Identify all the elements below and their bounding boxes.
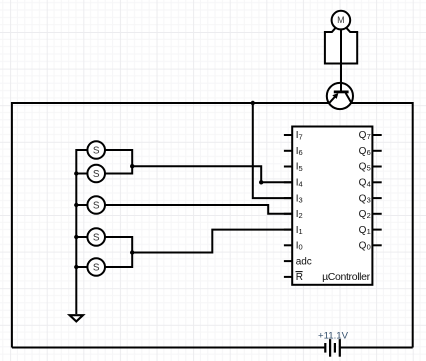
pin stub Q7 bbox=[372, 134, 381, 136]
svg-text:adc: adc bbox=[296, 256, 312, 267]
node I4 join bbox=[259, 180, 263, 184]
svg-text:R: R bbox=[296, 272, 303, 283]
node S4/S5 join bbox=[130, 250, 134, 254]
pin stub I0 bbox=[284, 244, 292, 246]
svg-text:I0: I0 bbox=[296, 241, 303, 252]
node top junction bbox=[251, 101, 255, 105]
wire S5 out bbox=[105, 253, 132, 268]
pin label R overline (active-low bar) bbox=[296, 271, 303, 273]
wire bus stub S3 bbox=[76, 204, 87, 206]
pin stub Q0 bbox=[372, 244, 381, 246]
wire motor shaft / transistor base bbox=[340, 29, 342, 92]
svg-text:2: 2 bbox=[367, 211, 371, 220]
svg-text:S: S bbox=[93, 232, 100, 243]
pin stub I4 bbox=[284, 181, 292, 183]
node bus S4 bbox=[74, 235, 78, 239]
pin stub Q2 bbox=[372, 213, 381, 215]
svg-text:I5: I5 bbox=[296, 162, 303, 173]
ground bbox=[70, 315, 83, 321]
pin stub I5 bbox=[284, 166, 292, 168]
svg-text:I6: I6 bbox=[296, 146, 303, 157]
svg-text:6: 6 bbox=[367, 148, 371, 157]
sensor S4 bbox=[87, 228, 105, 246]
svg-text:1: 1 bbox=[367, 227, 371, 236]
wire bus stub S2 bbox=[76, 173, 87, 175]
svg-text:Q: Q bbox=[359, 241, 367, 252]
svg-text:I2: I2 bbox=[296, 209, 303, 220]
transistor Q1 bbox=[327, 83, 353, 109]
node S1/S2 join bbox=[130, 164, 134, 168]
svg-text:M: M bbox=[337, 15, 345, 25]
pin stub adc bbox=[284, 260, 292, 262]
svg-text:7: 7 bbox=[367, 132, 371, 141]
sensor S5 bbox=[87, 258, 105, 276]
pin stub Q6 bbox=[372, 150, 381, 152]
svg-text:S: S bbox=[93, 200, 100, 211]
wire S4 out bbox=[105, 237, 132, 253]
pin stub Q1 bbox=[372, 229, 381, 231]
pin stub Q5 bbox=[372, 166, 381, 168]
node bus S3 bbox=[74, 203, 78, 207]
node bus S5 bbox=[74, 265, 78, 269]
svg-text:S: S bbox=[93, 145, 100, 156]
pin stub Q3 bbox=[372, 197, 381, 199]
svg-text:3: 3 bbox=[367, 195, 371, 204]
svg-text:µController: µController bbox=[322, 271, 371, 283]
wire bus stub S4 bbox=[76, 236, 87, 238]
wire sensor bus bbox=[76, 150, 87, 314]
wire bottom right segment bbox=[340, 347, 413, 349]
svg-text:Q: Q bbox=[359, 130, 367, 141]
svg-text:Q: Q bbox=[359, 178, 367, 189]
svg-text:+11.1V: +11.1V bbox=[318, 330, 349, 341]
svg-text:S: S bbox=[93, 169, 100, 180]
svg-text:S: S bbox=[93, 262, 100, 273]
sensor S2 bbox=[87, 165, 105, 183]
wire S3 to I2 bbox=[105, 205, 292, 214]
svg-text:0: 0 bbox=[367, 243, 371, 252]
wire junction to I3 bbox=[253, 103, 292, 198]
IC U1 µController box bbox=[292, 127, 372, 285]
pin stub I3 bbox=[284, 197, 292, 199]
pin stub I2 bbox=[284, 213, 292, 215]
svg-text:5: 5 bbox=[367, 164, 371, 173]
svg-text:Q: Q bbox=[359, 209, 367, 220]
wire bottom left segment bbox=[12, 347, 325, 349]
battery BAT1 bbox=[325, 339, 340, 357]
pin stub R-bar bbox=[284, 276, 292, 278]
pin stub I7 bbox=[284, 134, 292, 136]
wire S1 out bbox=[105, 150, 132, 166]
node bus S2 bbox=[74, 171, 78, 175]
wire S4/S5 to I1 bbox=[132, 230, 292, 253]
svg-text:I4: I4 bbox=[296, 178, 303, 189]
svg-text:I1: I1 bbox=[296, 225, 303, 236]
wire S2 out bbox=[105, 166, 132, 173]
svg-text:I3: I3 bbox=[296, 193, 303, 204]
motor M1 body bbox=[325, 28, 357, 64]
svg-text:Q: Q bbox=[359, 146, 367, 157]
wire S1/S2 to I4 bbox=[132, 166, 292, 182]
sensor S3 bbox=[87, 196, 105, 214]
motor M1 shaft bbox=[340, 29, 342, 64]
svg-text:I7: I7 bbox=[296, 130, 303, 141]
pin stub I6 bbox=[284, 150, 292, 152]
motor M1 circle bbox=[332, 11, 351, 30]
svg-text:4: 4 bbox=[367, 180, 371, 189]
sensor S1 bbox=[87, 141, 105, 159]
svg-text:Q: Q bbox=[359, 162, 367, 173]
svg-text:Q: Q bbox=[359, 193, 367, 204]
pin stub I1 bbox=[284, 229, 292, 231]
svg-text:Q: Q bbox=[359, 225, 367, 236]
pin stub Q4 bbox=[372, 181, 381, 183]
wire bus stub S5 bbox=[76, 266, 87, 268]
wire main loop top/left/right bbox=[12, 103, 413, 348]
